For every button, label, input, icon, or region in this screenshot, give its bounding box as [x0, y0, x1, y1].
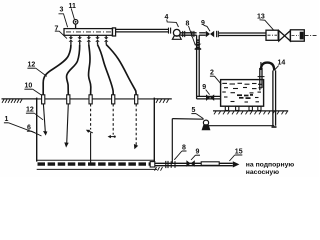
- svg-text:2: 2: [210, 70, 214, 77]
- well 5 dashed + arrow 6: [134, 104, 138, 149]
- centerline right: [305, 34, 317, 36]
- label 15: [229, 148, 242, 161]
- bottom discharge pipe: [155, 163, 233, 165]
- tee down-leg pipe: [197, 35, 200, 96]
- well 2 line + arrow 6: [64, 104, 68, 148]
- valve 7 #1: [69, 35, 73, 45]
- pump 5: [202, 120, 209, 130]
- elbow to tank pipe: [197, 96, 221, 99]
- label 9 (tank): [202, 84, 209, 95]
- label 5: [191, 107, 203, 119]
- label 9 (bottom): [191, 149, 200, 160]
- wellhead 10 #5: [135, 95, 138, 104]
- label 1: [4, 116, 35, 133]
- well 4 dashed + arrow-dot: [108, 104, 116, 138]
- ground line under tank: [213, 111, 288, 115]
- valve 9 (bottom): [186, 160, 194, 167]
- label 12 (well): [26, 107, 43, 120]
- label 12 (hoses): [27, 62, 46, 77]
- hose 12 #1: [43, 45, 71, 95]
- svg-text:1: 1: [5, 116, 9, 123]
- label 2: [210, 70, 222, 85]
- pit bottom drain dashes: [38, 162, 154, 165]
- pit bottom upper line: [37, 159, 155, 161]
- hose 12 #3: [89, 45, 91, 95]
- hose 12 #4: [98, 45, 114, 95]
- tank feet: [225, 106, 261, 110]
- pipe tee to valve 9: [199, 33, 206, 35]
- valve 7 #5: [104, 35, 108, 45]
- siphon pipe 14: [258, 62, 277, 127]
- pump 5 suction line: [172, 119, 203, 164]
- label 13: [257, 14, 273, 30]
- valve 7 #2: [78, 35, 82, 45]
- svg-text:15: 15: [235, 148, 243, 155]
- valve 7 #3: [87, 35, 91, 45]
- ground right + hatch: [154, 99, 172, 103]
- valve 13 bowtie: [279, 31, 291, 41]
- pipe to unit 13: [219, 33, 266, 36]
- valve 7 #4: [95, 35, 99, 45]
- well 3 lower solid line: [90, 133, 92, 163]
- tank dark cluster: [237, 95, 253, 98]
- label 14: [275, 60, 286, 70]
- pump inlet flange: [169, 28, 171, 34]
- box 13a: [266, 30, 278, 40]
- label 3: [59, 7, 68, 28]
- hose 12 #2: [66, 45, 79, 95]
- label 11: [69, 3, 77, 19]
- wellhead 10 #3: [89, 95, 92, 104]
- svg-text:10: 10: [25, 83, 33, 90]
- ground left + hatch: [2, 99, 38, 103]
- nozzle 15: [201, 162, 219, 166]
- wellhead 10 #4: [112, 95, 115, 104]
- label 6: [27, 125, 42, 136]
- svg-text:насосную: насосную: [246, 169, 279, 176]
- tank water texture: [222, 83, 262, 102]
- label 4: [165, 14, 179, 27]
- label 8 (bottom): [174, 144, 186, 159]
- pump 5 discharge line: [209, 125, 275, 127]
- wellhead 10 #1: [42, 95, 45, 104]
- pit right wall: [153, 98, 155, 164]
- valve 9 (top line): [206, 31, 219, 37]
- hatch at pipe exit: [155, 167, 163, 171]
- label 10: [24, 83, 41, 95]
- svg-text:на подпорную: на подпорную: [246, 161, 295, 168]
- svg-text:12: 12: [28, 62, 36, 69]
- down-leg small valve: [196, 39, 200, 43]
- pit top edge: [38, 98, 155, 100]
- valve 9 (tank inlet): [206, 94, 214, 101]
- pit left wall: [36, 98, 38, 162]
- thin pipe collector to pump: [116, 29, 169, 32]
- tank 2: [221, 80, 264, 107]
- pump U4: [172, 29, 181, 39]
- svg-text:12: 12: [26, 107, 34, 114]
- svg-text:11: 11: [69, 3, 77, 10]
- pump outlet pipe: [180, 31, 196, 37]
- collector pipe 3: [64, 28, 116, 36]
- pit bottom lower line: [37, 168, 157, 170]
- svg-text:3: 3: [60, 7, 64, 14]
- gauge 11: [73, 20, 78, 29]
- down-leg hourglass valve 8: [194, 44, 201, 49]
- svg-text:5: 5: [192, 107, 196, 114]
- well 1 line + arrow 6: [43, 104, 47, 136]
- svg-text:9: 9: [196, 149, 200, 156]
- box 13b: [290, 30, 304, 41]
- svg-text:8: 8: [182, 144, 186, 151]
- label 8 (top): [186, 21, 196, 46]
- svg-text:14: 14: [278, 60, 286, 67]
- hose 12 #5: [106, 45, 136, 95]
- wellhead 10 #2: [67, 95, 70, 104]
- text to booster pump: [246, 161, 295, 176]
- suction inlet box: [150, 162, 155, 167]
- well 3 dashed + arrow: [86, 104, 93, 133]
- flow arrow to booster: [233, 161, 240, 167]
- bottom pipe flanges: [166, 161, 175, 168]
- label 7: [55, 25, 68, 38]
- label 9 (top): [201, 20, 210, 31]
- svg-text:6: 6: [27, 125, 31, 132]
